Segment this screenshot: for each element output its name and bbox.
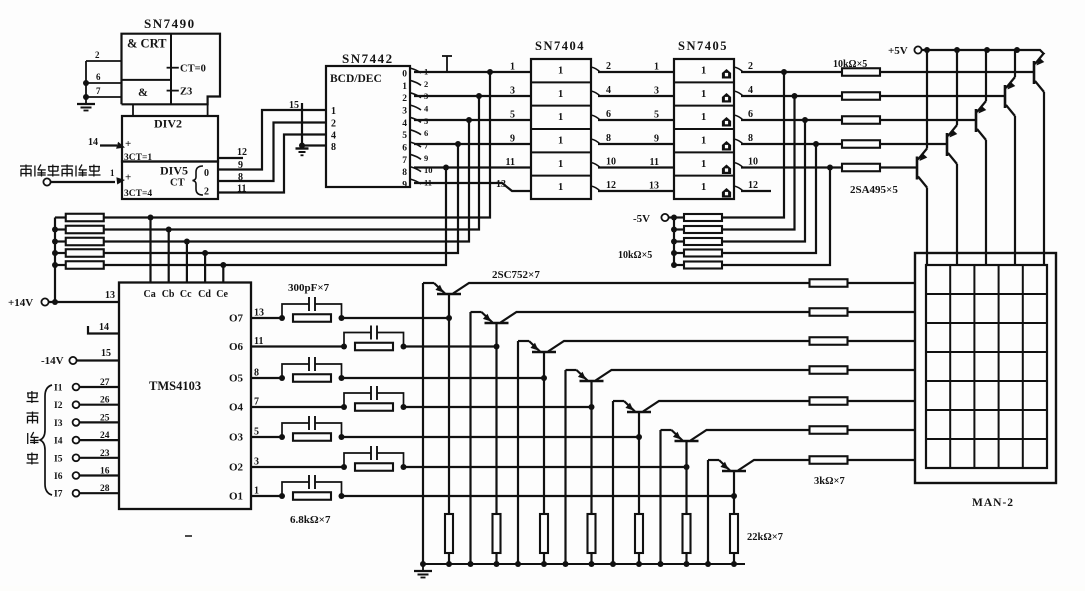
svg-text:7: 7 [402,156,407,166]
svg-text:14: 14 [88,137,98,148]
svg-text:5: 5 [654,110,659,121]
svg-text:9: 9 [510,134,515,145]
svg-text:10kΩ×5: 10kΩ×5 [833,59,867,70]
svg-text:+: + [125,172,131,184]
svg-text:7: 7 [254,397,259,408]
svg-text:CT=0: CT=0 [180,64,206,75]
svg-text:22kΩ×7: 22kΩ×7 [747,532,783,543]
svg-text:SN7490: SN7490 [144,16,196,31]
svg-text:8: 8 [331,142,336,153]
svg-text:I2: I2 [54,401,63,411]
svg-text:2: 2 [402,94,407,104]
svg-text:I5: I5 [54,454,63,464]
svg-text:27: 27 [100,378,110,388]
svg-text:O2: O2 [229,462,244,474]
svg-text:O3: O3 [229,432,244,444]
svg-text:&: & [138,85,148,99]
svg-text:SN7442: SN7442 [342,51,394,66]
svg-text:7: 7 [96,86,101,96]
svg-text:0: 0 [402,70,407,80]
svg-text:Z3: Z3 [180,87,192,98]
svg-text:1: 1 [701,89,706,100]
svg-text:11: 11 [650,157,659,168]
svg-text:12: 12 [748,180,758,191]
svg-text:2: 2 [95,50,100,60]
svg-text:25: 25 [100,413,110,423]
svg-text:1: 1 [558,89,563,100]
svg-text:1: 1 [558,66,563,77]
svg-text:2: 2 [424,79,428,89]
svg-text:1: 1 [402,82,407,92]
svg-text:1: 1 [701,159,706,170]
svg-text:13: 13 [105,290,115,301]
svg-text:CT: CT [170,178,185,189]
svg-text:1: 1 [331,106,336,117]
svg-text:I6: I6 [54,472,63,482]
svg-text:3: 3 [402,106,407,116]
svg-text:I1: I1 [54,384,63,394]
svg-text:1: 1 [701,66,706,77]
svg-text:I4: I4 [54,437,63,447]
svg-text:4: 4 [606,85,611,96]
svg-text:8: 8 [606,133,611,144]
svg-text:O5: O5 [229,373,244,385]
svg-text:+: + [125,138,131,150]
svg-text:26: 26 [100,396,110,406]
svg-text:0: 0 [204,168,209,179]
svg-text:2: 2 [204,187,209,198]
svg-text:1: 1 [254,486,259,497]
svg-text:Cd: Cd [198,289,211,300]
svg-text:3: 3 [654,86,659,97]
svg-text:1: 1 [558,159,563,170]
svg-text:11: 11 [506,157,515,168]
svg-text:24: 24 [100,431,110,441]
svg-text:6.8kΩ×7: 6.8kΩ×7 [290,514,331,526]
svg-text:2: 2 [331,119,336,130]
svg-text:5: 5 [510,110,515,121]
svg-text:3kΩ×7: 3kΩ×7 [814,476,845,487]
svg-text:1: 1 [558,135,563,146]
svg-text:O7: O7 [229,313,244,325]
svg-text:3CT=1: 3CT=1 [124,153,152,163]
svg-text:5: 5 [254,427,259,438]
svg-text:300pF×7: 300pF×7 [288,282,330,294]
svg-text:2SA495×5: 2SA495×5 [850,184,898,196]
svg-text:4: 4 [748,85,753,96]
svg-text:6: 6 [96,72,101,82]
svg-text:TMS4103: TMS4103 [149,379,201,393]
svg-text:6: 6 [748,109,753,120]
svg-text:12: 12 [237,147,247,158]
svg-text:6: 6 [606,109,611,120]
svg-text:I3: I3 [54,419,63,429]
svg-text:4: 4 [402,119,407,129]
svg-text:8: 8 [402,168,407,178]
svg-text:10: 10 [748,157,758,168]
svg-text:10kΩ×5: 10kΩ×5 [618,250,652,261]
svg-text:5: 5 [402,131,407,141]
svg-text:9: 9 [402,180,407,190]
svg-text:BCD/DEC: BCD/DEC [330,73,382,85]
svg-text:9: 9 [424,153,428,163]
svg-text:10: 10 [606,157,616,168]
svg-text:+14V: +14V [8,297,33,309]
svg-text:14: 14 [99,322,109,333]
svg-text:1: 1 [510,62,515,73]
svg-text:Ce: Ce [216,289,228,300]
svg-text:2: 2 [748,61,753,72]
svg-text:13: 13 [496,179,506,190]
svg-text:16: 16 [100,467,110,477]
svg-text:O6: O6 [229,341,244,353]
svg-text:-5V: -5V [633,213,650,225]
svg-text:8: 8 [254,368,259,379]
svg-text:1: 1 [701,112,706,123]
svg-text:DIV2: DIV2 [154,117,182,131]
svg-text:1: 1 [701,182,706,193]
svg-text:DIV5: DIV5 [160,164,188,178]
svg-text:13: 13 [254,308,264,319]
svg-text:2SC752×7: 2SC752×7 [492,269,540,281]
svg-text:15: 15 [101,348,111,359]
svg-text:23: 23 [100,449,110,459]
svg-text:Ca: Ca [144,289,156,300]
svg-text:2: 2 [606,61,611,72]
svg-text:& CRT: & CRT [127,37,167,51]
svg-text:6: 6 [424,128,428,138]
svg-text:+5V: +5V [888,45,908,57]
svg-text:MAN-2: MAN-2 [972,497,1014,509]
svg-text:11: 11 [254,336,263,347]
svg-text:1: 1 [558,112,563,123]
svg-text:28: 28 [100,484,110,494]
svg-text:1: 1 [654,62,659,73]
svg-text:15: 15 [289,100,299,111]
svg-text:3: 3 [254,457,259,468]
svg-text:1: 1 [701,135,706,146]
svg-text:4: 4 [331,131,336,142]
svg-text:SN7404: SN7404 [535,39,585,53]
svg-text:SN7405: SN7405 [678,39,728,53]
svg-text:-14V: -14V [41,355,64,367]
svg-text:Cc: Cc [180,289,192,300]
svg-text:3: 3 [510,86,515,97]
svg-text:O1: O1 [229,491,243,503]
svg-text:9: 9 [654,134,659,145]
svg-text:12: 12 [606,180,616,191]
svg-text:1: 1 [110,168,115,178]
svg-text:O4: O4 [229,402,244,414]
svg-text:6: 6 [402,143,407,153]
svg-text:Cb: Cb [162,289,175,300]
svg-text:8: 8 [748,133,753,144]
svg-text:13: 13 [649,181,659,192]
svg-text:1: 1 [558,182,563,193]
svg-text:3CT=4: 3CT=4 [124,189,152,199]
svg-text:I7: I7 [54,490,63,500]
